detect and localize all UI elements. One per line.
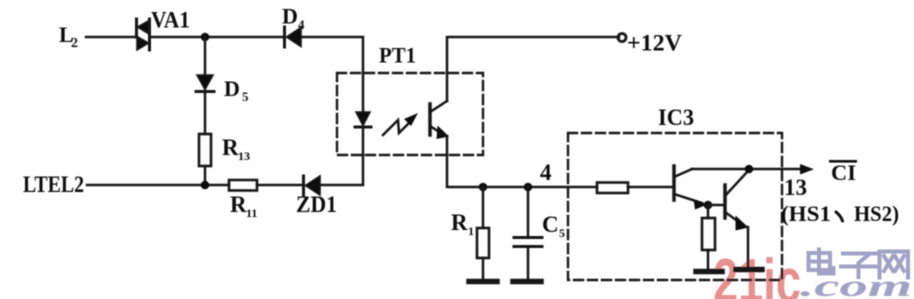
label R11: [230, 192, 257, 220]
label (HS1 HS2): [781, 201, 899, 226]
wire collector output rail: [692, 168, 800, 171]
label +12V: [627, 31, 682, 56]
resistor R13: [199, 134, 211, 166]
watermark 21ic logo: [713, 247, 912, 299]
label CI with overline: [829, 160, 857, 185]
svg-text:2: 2: [71, 36, 78, 51]
output arrow: [800, 164, 814, 175]
wire L2 to VA1: [86, 36, 135, 39]
svg-text:+12V: +12V: [627, 31, 682, 56]
label IC3: [658, 105, 694, 130]
svg-text:13: 13: [784, 175, 807, 200]
wire R11 to ZD1: [257, 184, 303, 187]
node junction collector: [745, 165, 754, 174]
svg-text:4: 4: [298, 17, 305, 32]
label D4: [282, 4, 305, 33]
resistor R11: [229, 180, 257, 191]
wire LED cathode down and left to ZD1: [320, 127, 363, 185]
svg-text:13: 13: [238, 149, 250, 163]
label ZD1: [296, 192, 337, 217]
ground under bias resistor: [696, 269, 722, 275]
svg-text:R: R: [230, 192, 247, 217]
svg-text:(HS1: (HS1: [781, 201, 831, 226]
light arrow: [383, 113, 418, 135]
wire LTEL2 to R11: [87, 184, 229, 187]
node junction Q1 emitter / Q2 base: [704, 201, 713, 210]
capacitor C5: [514, 187, 542, 281]
svg-text:ZD1: ZD1: [296, 192, 337, 217]
node junction LTEL2: [201, 181, 210, 190]
zener ZD1: [304, 176, 321, 195]
svg-text:HS2): HS2): [854, 201, 899, 226]
IC3 dashed box: [568, 133, 782, 280]
wire Q2 base: [708, 204, 725, 207]
svg-text:IC3: IC3: [658, 105, 694, 130]
svg-text:C: C: [542, 212, 559, 237]
wire emitter down to bottom rail: [447, 136, 597, 187]
svg-text:CI: CI: [831, 160, 856, 185]
svg-text:21ic: 21ic: [713, 247, 801, 299]
svg-text:D: D: [224, 76, 240, 101]
svg-text:R: R: [222, 135, 239, 160]
label D5: [224, 76, 249, 104]
svg-text:4: 4: [540, 160, 552, 185]
label VA1: [151, 8, 190, 33]
LED inside PT1: [355, 112, 371, 127]
node junction top: [201, 33, 210, 42]
node junction C5: [524, 183, 533, 192]
svg-text:PT1: PT1: [379, 43, 416, 68]
label 13: [784, 175, 807, 200]
wire D4 to corner, down to LED: [301, 37, 363, 112]
label R13: [222, 135, 250, 163]
resistor IC3 bias: [702, 205, 715, 271]
transistor Q1: [674, 166, 708, 210]
resistor R1: [477, 187, 489, 281]
label PT1: [379, 43, 416, 68]
wire R13 to LTEL2 rail: [204, 166, 207, 185]
ground under R1: [469, 279, 497, 285]
optocoupler PT1 dashed box: [337, 73, 483, 155]
svg-text:D: D: [282, 4, 298, 29]
svg-text:1: 1: [468, 224, 474, 238]
ground under Q2 emitter: [736, 267, 762, 273]
label R1: [451, 210, 474, 238]
watermark 电子网 glyphs: [809, 250, 909, 278]
wire collector up to +12V rail: [447, 37, 619, 101]
svg-text:LTEL2: LTEL2: [23, 172, 84, 197]
svg-text:VA1: VA1: [151, 8, 190, 33]
svg-text:R: R: [451, 210, 468, 235]
svg-text:5: 5: [242, 89, 249, 104]
node L2 label: [59, 22, 78, 51]
transistor Q2: [725, 171, 749, 231]
phototransistor PT1 output: [430, 101, 449, 139]
svg-text:5: 5: [559, 226, 565, 240]
wire junction to D5 to R13: [204, 37, 207, 75]
varistor VA1: [137, 19, 150, 50]
diode D5: [196, 75, 214, 92]
svg-text:11: 11: [246, 206, 257, 220]
wire Q2 emitter to ground: [747, 227, 750, 268]
resistor inside IC3: [597, 183, 628, 194]
diode D4: [285, 27, 302, 47]
terminal +12V: [618, 34, 626, 42]
wire VA1 to D4: [150, 36, 284, 39]
label C5: [542, 212, 565, 240]
node junction R1: [479, 183, 488, 192]
label 4: [540, 160, 552, 185]
node LTEL2 label: [23, 172, 84, 197]
ground under C5: [513, 279, 541, 285]
wire resistor to Q1 base: [628, 186, 674, 189]
